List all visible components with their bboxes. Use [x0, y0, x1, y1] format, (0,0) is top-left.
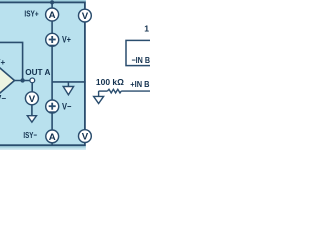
wire below output voltmeter [31, 105, 33, 116]
outer soft edge above panel [0, 0, 86, 2]
svg-text:1: 1 [144, 23, 149, 33]
DUT panel box [0, 2, 85, 145]
wire left supply rail [51, 2, 53, 144]
op-amp U1 (clipped at left edge) [0, 59, 15, 101]
voltmeter V (bottom right, on panel border) [79, 130, 92, 143]
svg-text:V−: V− [0, 94, 6, 103]
svg-text:ISY+: ISY+ [24, 9, 38, 19]
svg-text:A: A [49, 132, 56, 143]
ammeter A (ISY-) [46, 130, 59, 143]
resistor R 100k zigzag [108, 89, 122, 93]
node junction dot at top rail [50, 0, 54, 4]
wire feedback from output up and left [0, 42, 23, 80]
wire output from op-amp apex to OUT A terminal [15, 80, 33, 82]
svg-text:A: A [49, 10, 56, 21]
ground (mid branch) [63, 87, 73, 95]
svg-text:−IN B: −IN B [132, 55, 151, 65]
wire +IN B with resistor (right side) [99, 90, 108, 92]
wire from OUT A terminal down to voltmeter [31, 83, 33, 93]
ground (right side) [94, 96, 104, 103]
voltmeter V (output) [25, 92, 38, 105]
svg-text:V: V [82, 11, 89, 22]
wire stub to ground [67, 82, 69, 87]
ground (below output voltmeter) [27, 116, 36, 123]
wire branch to ground arrow and right border [52, 81, 86, 83]
svg-text:V−: V− [62, 102, 71, 112]
page background [0, 0, 150, 150]
voltage source V- [46, 100, 59, 113]
node OUT A open terminal [30, 78, 35, 83]
svg-text:OUT A: OUT A [25, 67, 50, 77]
voltmeter V (top right, on panel border) [79, 9, 92, 22]
svg-text:V: V [29, 94, 36, 105]
box -IN B (op amp B pin block, clipped right) [126, 40, 156, 65]
wire right of resistor to +IN B [121, 90, 150, 92]
ammeter A (ISY+) [46, 8, 59, 21]
svg-text:100 kΩ: 100 kΩ [96, 77, 124, 87]
svg-text:V+: V+ [62, 35, 71, 45]
wire stub down to ground (right) [98, 91, 100, 96]
svg-text:V+: V+ [0, 58, 5, 67]
node output junction dot [20, 78, 24, 82]
svg-text:V: V [82, 132, 89, 143]
svg-text:ISY−: ISY− [23, 130, 37, 140]
svg-text:+IN B: +IN B [130, 79, 149, 89]
voltage source V+ [46, 33, 59, 46]
